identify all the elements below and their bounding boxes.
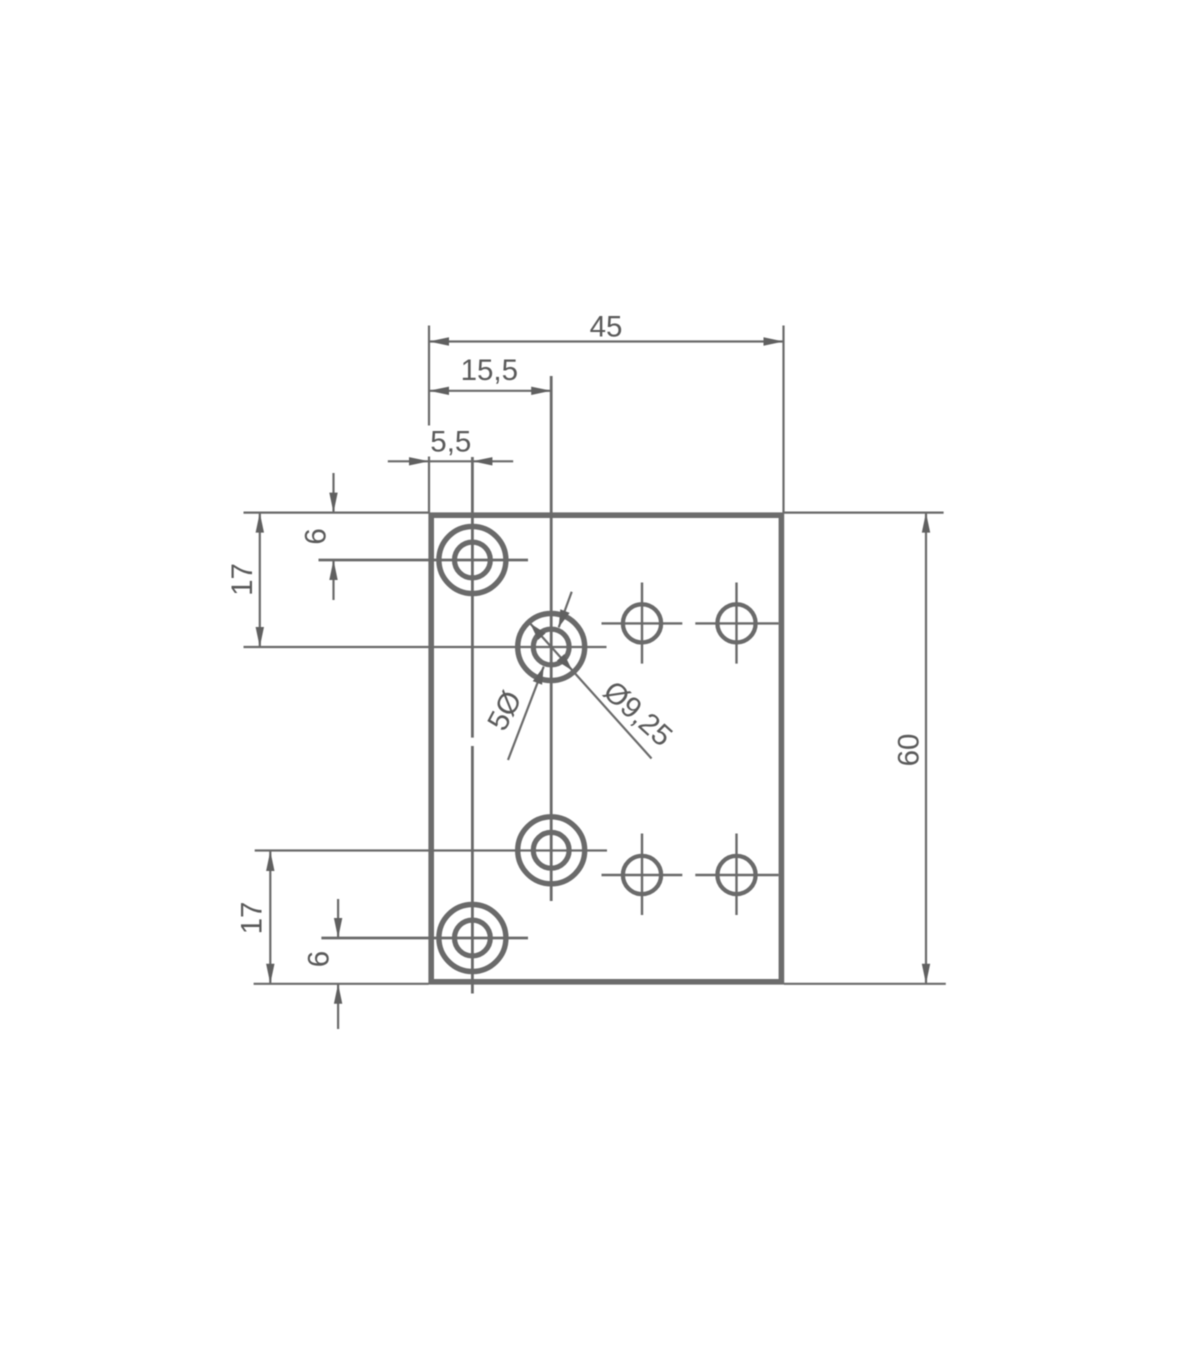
hole bottom-left outer circle: [439, 905, 506, 972]
svg-text:15,5: 15,5: [461, 354, 518, 387]
dimension 17 bottom line: [269, 851, 271, 984]
small hole bottom A crosshair: [602, 874, 683, 876]
leader 5O lower segment: [508, 667, 544, 760]
centerline horizontal hole top-left: [319, 559, 529, 562]
top edge extension line left: [244, 511, 429, 513]
dimension 60 line: [925, 513, 927, 984]
hole top-middle inner circle: [533, 629, 569, 665]
dimension 6 bottom line: [337, 899, 339, 938]
centerline horizontal hole bottom-left: [321, 937, 528, 940]
small hole top A circle: [623, 604, 661, 642]
dimension 17 top line: [259, 513, 261, 647]
bottom edge extension line left: [254, 983, 429, 985]
centerline horizontal hole top-middle / extension 17: [244, 646, 607, 648]
small hole bottom A circle: [623, 856, 661, 894]
centerline horizontal hole bottom-middle / extension 17: [255, 849, 607, 851]
svg-text:45: 45: [590, 310, 623, 343]
small hole bottom B crosshair: [695, 874, 778, 876]
svg-text:17: 17: [236, 902, 269, 935]
dimension 60 extension top: [784, 511, 944, 513]
dimension 6 top line: [332, 473, 334, 513]
dimension 15,5 line: [429, 390, 551, 392]
leader O9,25 line: [530, 624, 651, 759]
centerline vertical through left holes: [471, 457, 474, 738]
hole bottom-middle outer circle: [518, 817, 585, 884]
hole bottom-left inner circle: [455, 920, 491, 956]
dimension 45 extension line right: [782, 326, 784, 513]
small hole top A crosshair: [602, 622, 683, 624]
dimension 60 extension bottom: [784, 983, 946, 985]
svg-text:60: 60: [893, 734, 926, 767]
centerline vertical through middle holes: [550, 376, 553, 901]
hole top-middle outer circle: [518, 614, 585, 681]
leader 5O upper segment: [559, 592, 572, 628]
dimension 45 extension line left (with text gap): [428, 326, 430, 426]
dimension 45 line: [429, 340, 784, 342]
dimension 5,5 line: [388, 460, 513, 462]
plate outline rectangle 45x60: [431, 515, 781, 982]
hole top-left inner circle: [455, 542, 491, 578]
svg-text:6: 6: [303, 951, 336, 967]
hole top-left outer circle: [439, 527, 506, 594]
small hole top B crosshair: [695, 622, 778, 624]
hole bottom-middle inner circle: [533, 832, 569, 868]
small hole top B circle: [717, 604, 755, 642]
svg-text:17: 17: [226, 563, 259, 596]
svg-text:5,5: 5,5: [430, 426, 471, 459]
small hole bottom B circle: [717, 856, 755, 894]
svg-text:6: 6: [300, 528, 333, 544]
